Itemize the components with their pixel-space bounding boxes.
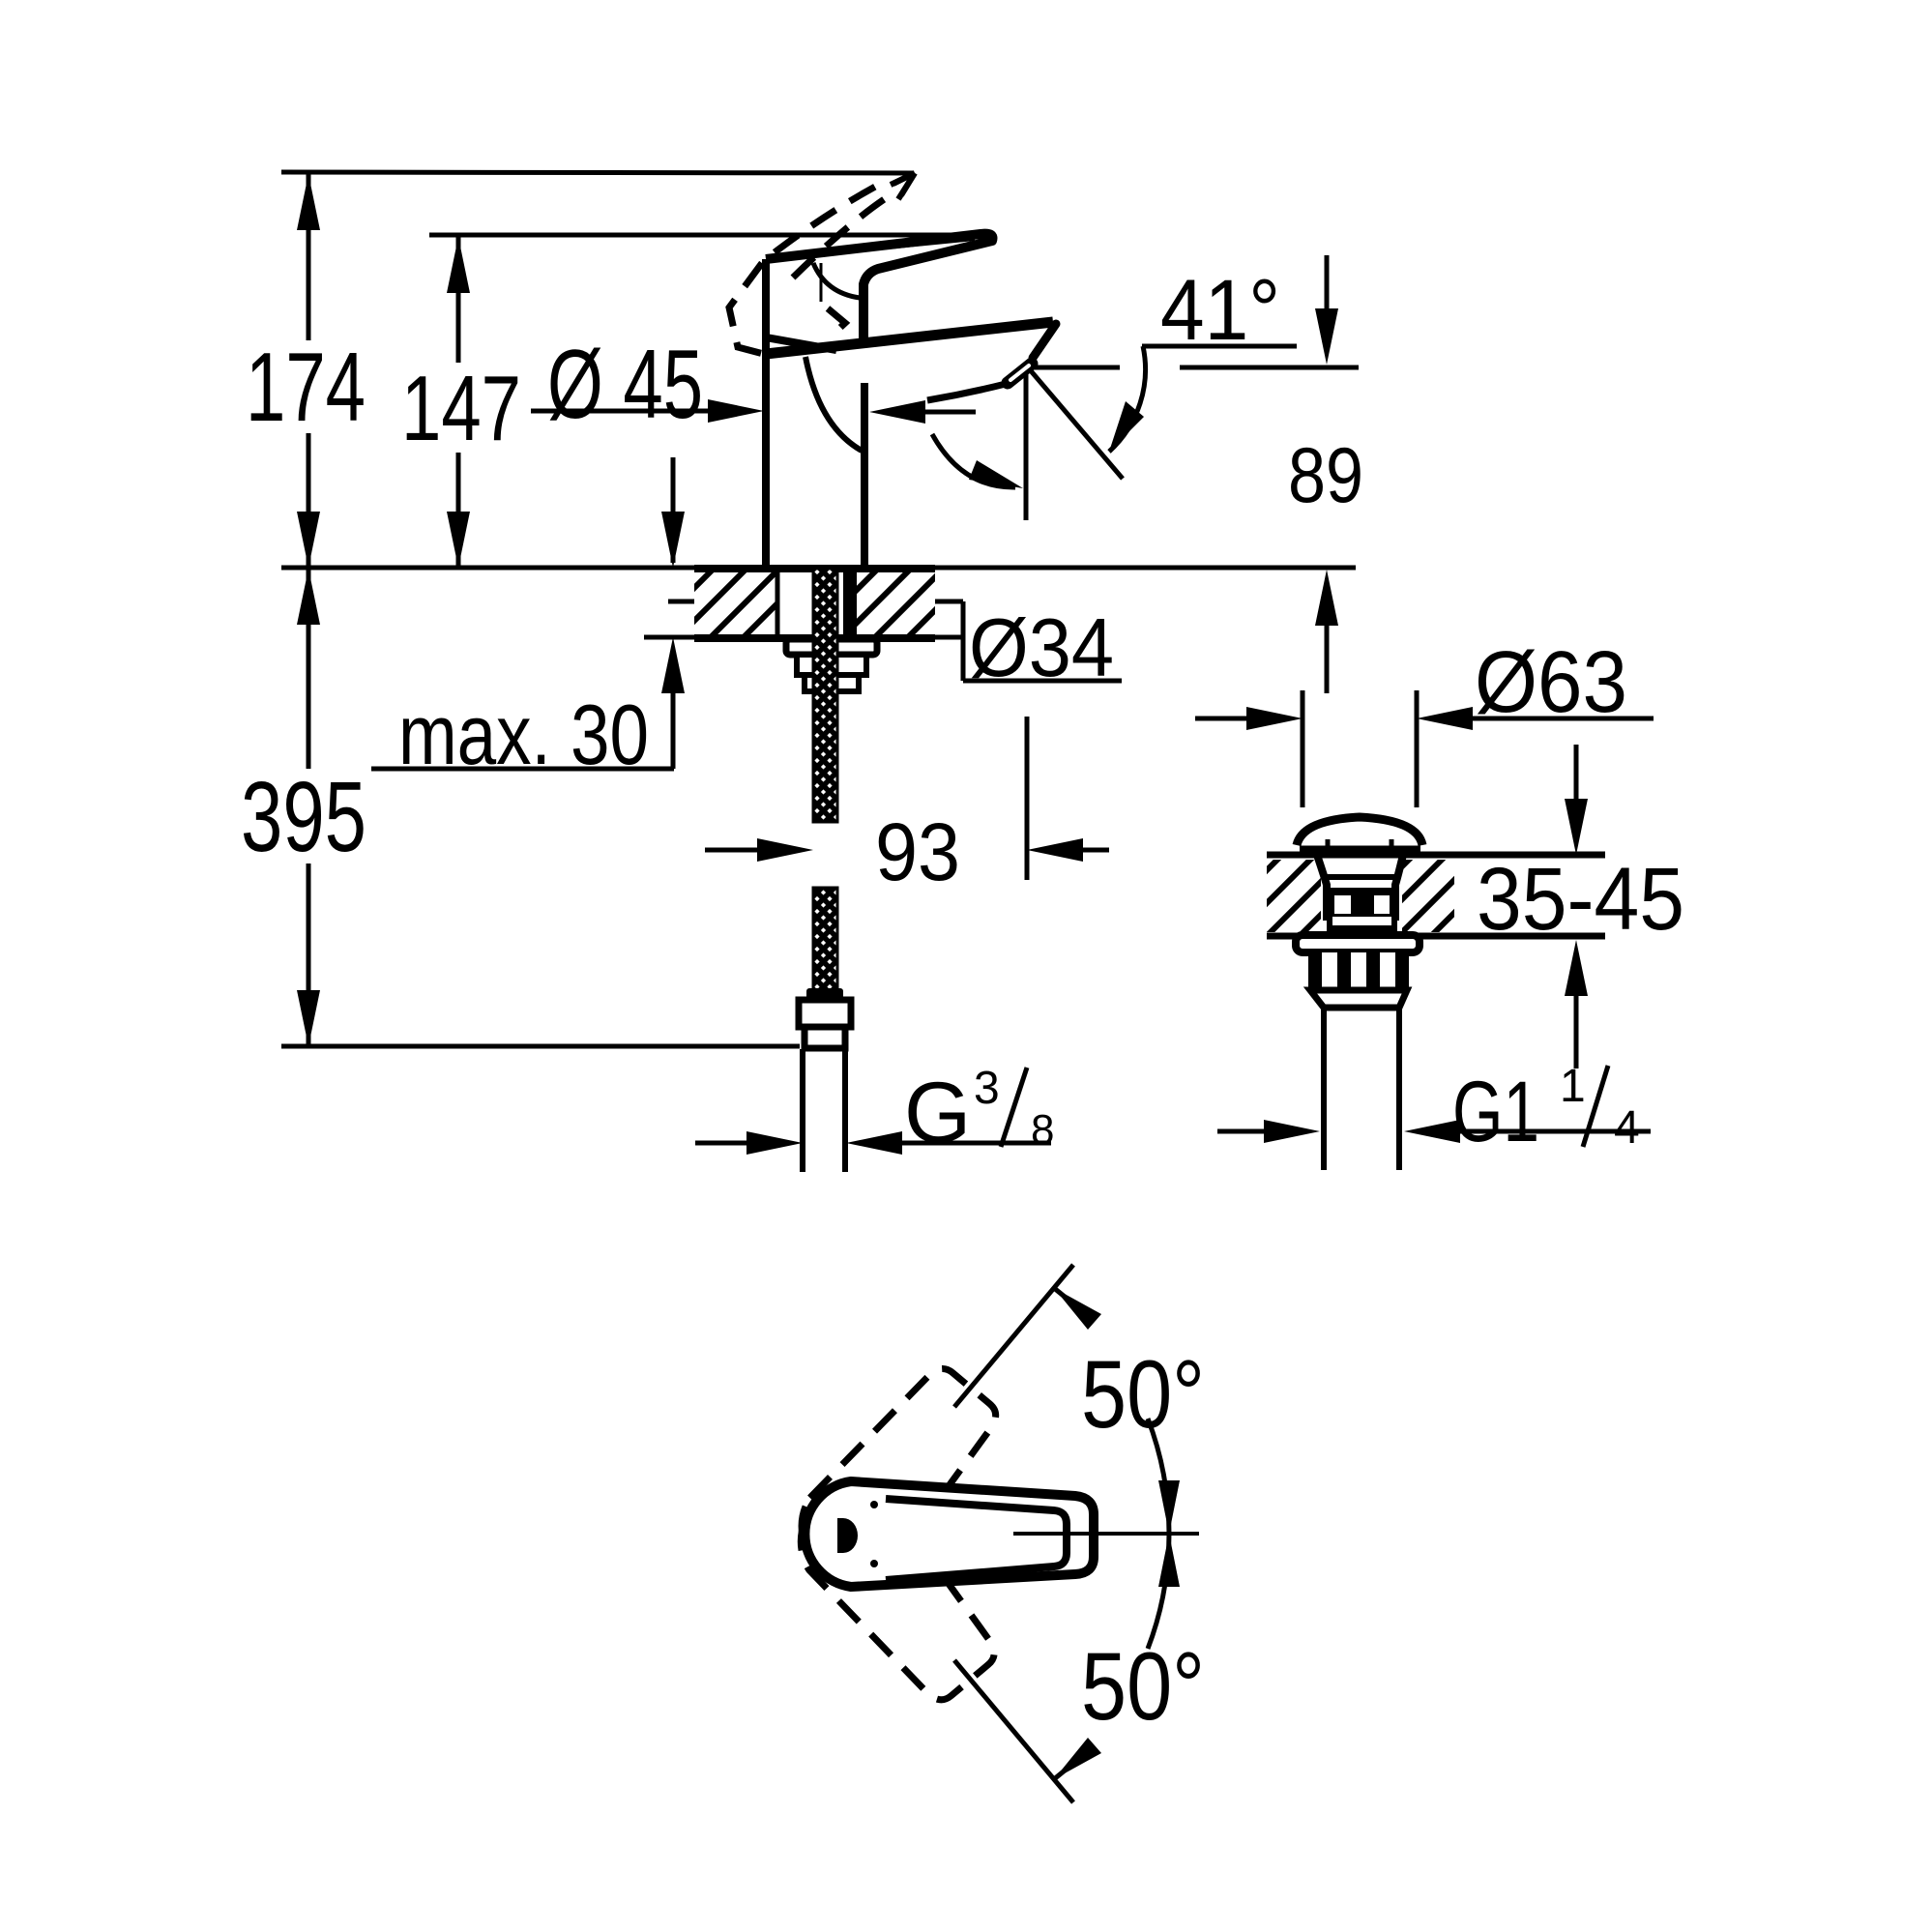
spout underside xyxy=(927,384,1006,400)
inner vertical crease xyxy=(820,263,823,302)
dimension 93 xyxy=(705,717,1109,880)
svg-text:max. 30: max. 30 xyxy=(398,687,649,782)
handle D mark xyxy=(837,1518,858,1553)
dashed raised lever blade xyxy=(729,181,889,357)
drain flange xyxy=(1296,935,1420,952)
dimension 89 vertical arrows xyxy=(1315,255,1338,693)
svg-text:395: 395 xyxy=(241,761,366,872)
reference arrow at x=696 (counter plane) xyxy=(661,457,685,568)
text G1 1/4 xyxy=(1452,1061,1640,1159)
hose connector xyxy=(806,988,843,1000)
lever base xyxy=(766,259,836,350)
dimension 35-45 xyxy=(1565,745,1588,1068)
svg-text:89: 89 xyxy=(1288,432,1363,519)
mounting hole left edge xyxy=(776,571,780,635)
drain thread section xyxy=(1308,952,1409,989)
counter top bar xyxy=(694,565,935,572)
text G 3/8 xyxy=(904,1063,1054,1160)
dimension 174 vertical with arrows xyxy=(297,172,320,568)
counter hatching right xyxy=(857,572,935,634)
svg-text:Ø34: Ø34 xyxy=(969,602,1114,694)
rotated centerline down xyxy=(954,1660,1073,1802)
blade crease line xyxy=(789,239,975,257)
dashed handle rotated up 50 xyxy=(780,1354,1011,1600)
50 deg arc lower xyxy=(1054,1534,1180,1779)
dimension G1 1/4 xyxy=(1217,1120,1651,1143)
handle dots xyxy=(870,1501,878,1508)
spout root arc xyxy=(805,357,862,451)
washer xyxy=(786,639,877,655)
dimension G 3/8 xyxy=(695,1131,1051,1155)
flow arc with arrow xyxy=(932,434,1023,488)
spray direction line xyxy=(1028,367,1123,479)
svg-text:Ø 45: Ø 45 xyxy=(547,331,703,439)
sink slab hatching xyxy=(1267,860,1321,932)
svg-text:8: 8 xyxy=(1031,1106,1054,1154)
counter bottom bar xyxy=(694,634,935,642)
svg-text:Ø63: Ø63 xyxy=(1475,634,1627,731)
shank wall (section) xyxy=(843,571,857,635)
supply pipe xyxy=(800,1049,805,1172)
bottom reference line (hose end) xyxy=(281,1044,800,1049)
drain cap xyxy=(1297,817,1422,845)
dimension line 174 (top reference) xyxy=(281,172,915,195)
svg-text:147: 147 xyxy=(401,357,521,460)
svg-text:41°: 41° xyxy=(1160,261,1280,358)
svg-text:1: 1 xyxy=(1560,1061,1586,1112)
svg-text:3: 3 xyxy=(974,1063,1000,1114)
flexible hose braid upper xyxy=(813,569,837,822)
spout tip end face xyxy=(1033,324,1056,358)
spout top edge xyxy=(766,322,1053,354)
svg-text:G1: G1 xyxy=(1452,1063,1539,1159)
centerline xyxy=(1013,1532,1199,1536)
svg-text:93: 93 xyxy=(875,806,960,897)
svg-text:35-45: 35-45 xyxy=(1477,850,1684,949)
counter bottom thin extensions xyxy=(644,635,694,640)
dimension 147 vertical with arrows xyxy=(447,235,470,568)
svg-text:4: 4 xyxy=(1614,1102,1640,1154)
counter reference line xyxy=(281,566,1356,571)
dimension line 147 (handle tip reference) xyxy=(429,233,969,238)
drain pipe xyxy=(1321,1008,1327,1170)
handle lever blade (solid) xyxy=(766,234,993,340)
dashed handle rotated down 50 xyxy=(779,1467,1010,1713)
counter hatching left xyxy=(694,572,776,634)
dimension 395 vertical with arrows xyxy=(297,568,320,1046)
handle top view inner outline xyxy=(886,1499,1067,1580)
rotated centerline up xyxy=(954,1265,1073,1407)
41 deg leader line and arc xyxy=(1109,346,1297,452)
svg-text:50°: 50° xyxy=(1081,1340,1205,1448)
dimension Ø34 leader xyxy=(668,590,1122,681)
cartridge dome arc xyxy=(813,263,860,298)
svg-text:G: G xyxy=(904,1064,971,1160)
dashed lever open arrowhead xyxy=(891,173,915,199)
handle top view solid outline xyxy=(805,1481,1094,1587)
drain body in slab xyxy=(1317,855,1327,921)
sink slab bottom line xyxy=(1267,933,1605,940)
flexible hose braid lower xyxy=(813,888,837,991)
svg-text:50°: 50° xyxy=(1081,1632,1205,1740)
outlet vertical reference xyxy=(1024,366,1029,520)
dimension Ø63 xyxy=(1195,690,1654,807)
drain taper xyxy=(1310,990,1407,1008)
body left edge lower xyxy=(762,337,770,568)
50 deg arc upper xyxy=(1054,1288,1180,1534)
body right edge xyxy=(861,383,868,568)
aerator slot xyxy=(1008,364,1032,383)
svg-text:174: 174 xyxy=(246,334,366,442)
spout outlet reference line xyxy=(1034,366,1359,370)
sink slab top line xyxy=(1267,852,1605,859)
dimension Ø45 arrows xyxy=(531,399,976,424)
max. 30 dimension leader xyxy=(371,637,685,769)
mounting nut xyxy=(797,655,866,675)
